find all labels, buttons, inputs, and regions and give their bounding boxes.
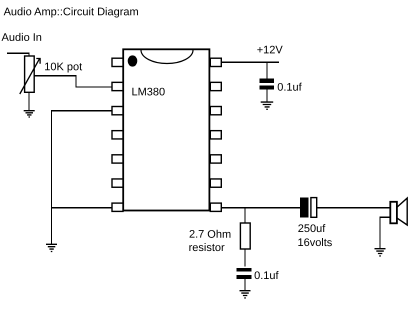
svg-text:0.1uf: 0.1uf: [277, 82, 302, 94]
svg-text:16volts: 16volts: [297, 237, 332, 249]
svg-text:10K pot: 10K pot: [44, 61, 82, 73]
svg-text:resistor: resistor: [189, 242, 225, 254]
svg-text:+12V: +12V: [257, 44, 284, 56]
svg-text:Audio Amp::Circuit Diagram: Audio Amp::Circuit Diagram: [4, 6, 139, 18]
svg-text:2.7 Ohm: 2.7 Ohm: [189, 229, 231, 241]
svg-text:LM380: LM380: [132, 86, 166, 98]
svg-text:250uf: 250uf: [298, 223, 326, 235]
svg-text:0.1uf: 0.1uf: [254, 270, 279, 282]
svg-text:Audio In: Audio In: [2, 32, 42, 44]
